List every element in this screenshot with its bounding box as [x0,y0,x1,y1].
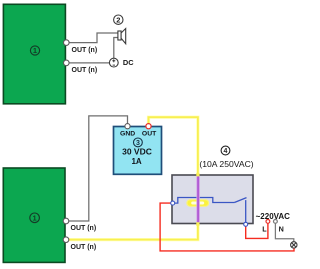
lamp (circle with X) [291,242,297,248]
terminal OUT (n) #1 bottom [63,218,96,232]
node: relay switched output (bottom right) [244,222,248,226]
PSU rating text 30 VDC 1A [122,146,152,166]
controller module 1 (bottom green box) [3,168,65,262]
svg-text:L: L [262,224,267,233]
yellow wire crossing relay edges (over border) [196,173,199,226]
controller module 1 (top green box) [3,4,65,104]
DC source [109,58,118,67]
label 2 (buzzer) [114,15,123,24]
label 1 (top controller) [30,46,39,55]
svg-text:4: 4 [224,148,228,155]
svg-text:1A: 1A [131,157,141,166]
power supply unit 3 (cyan box) [114,127,162,175]
relay rating text (10A 250VAC) [199,159,253,169]
yellow wire: PSU OUT through relay to OUT2 of bottom controller (halo) [68,117,198,239]
label 3 (power supply) [134,138,143,147]
svg-text:OUT (n): OUT (n) [71,244,97,251]
terminal OUT (n) #2 bottom [63,237,96,251]
terminal OUT (n) #1 top [64,40,98,54]
label 4 (relay) [221,146,230,155]
node: relay coil input (left) [171,201,175,205]
svg-text:2: 2 [116,15,120,24]
wire buzzer to DC source [114,38,118,59]
terminal OUT (n) #2 top [64,60,98,74]
relay switch circuit (blue) [173,198,247,225]
purple actuation line through relay [196,176,199,222]
wire OUT2 of top controller to DC source [67,62,110,64]
terminal L (live) [262,220,269,234]
mains label ~220VAC [256,212,291,221]
svg-text:OUT: OUT [142,130,157,137]
svg-text:OUT (n): OUT (n) [72,67,98,74]
gray wire: N terminal to lamp [275,223,293,241]
svg-text:OUT (n): OUT (n) [71,225,97,232]
svg-text:(10A 250VAC): (10A 250VAC) [199,159,253,169]
yellow wire core [68,117,198,239]
buzzer / speaker symbol [118,29,126,44]
svg-text:N: N [279,224,284,233]
relay coil (yellow glow capsule) [186,199,209,207]
svg-text:1: 1 [33,214,37,223]
svg-text:OUT (n): OUT (n) [72,47,98,54]
terminal OUT of PSU [142,124,157,138]
svg-text:DC: DC [123,58,134,67]
wire GND of PSU to OUT1 of bottom controller [67,116,128,221]
terminal N (neutral) [274,220,284,234]
label 1 (bottom controller) [30,213,40,223]
red wire: relay coil return to lamp [160,203,294,251]
svg-text:1: 1 [33,46,37,55]
DC value label [123,58,134,67]
terminal GND of PSU [120,124,135,138]
svg-text:~220VAC: ~220VAC [256,212,291,221]
red wire: L terminal to relay common contact [246,223,268,238]
svg-text:GND: GND [120,130,135,137]
svg-text:30 VDC: 30 VDC [122,146,152,156]
wire OUT1 of top controller to buzzer [67,33,118,43]
relay 4 body [172,175,253,224]
